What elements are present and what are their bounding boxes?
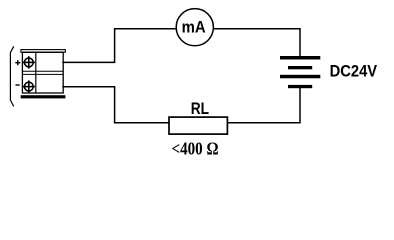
svg-text:DC24V: DC24V [330, 62, 378, 81]
svg-text:<400 Ω: <400 Ω [172, 139, 219, 159]
svg-text:mA: mA [182, 18, 206, 37]
svg-text:RL: RL [191, 99, 209, 118]
